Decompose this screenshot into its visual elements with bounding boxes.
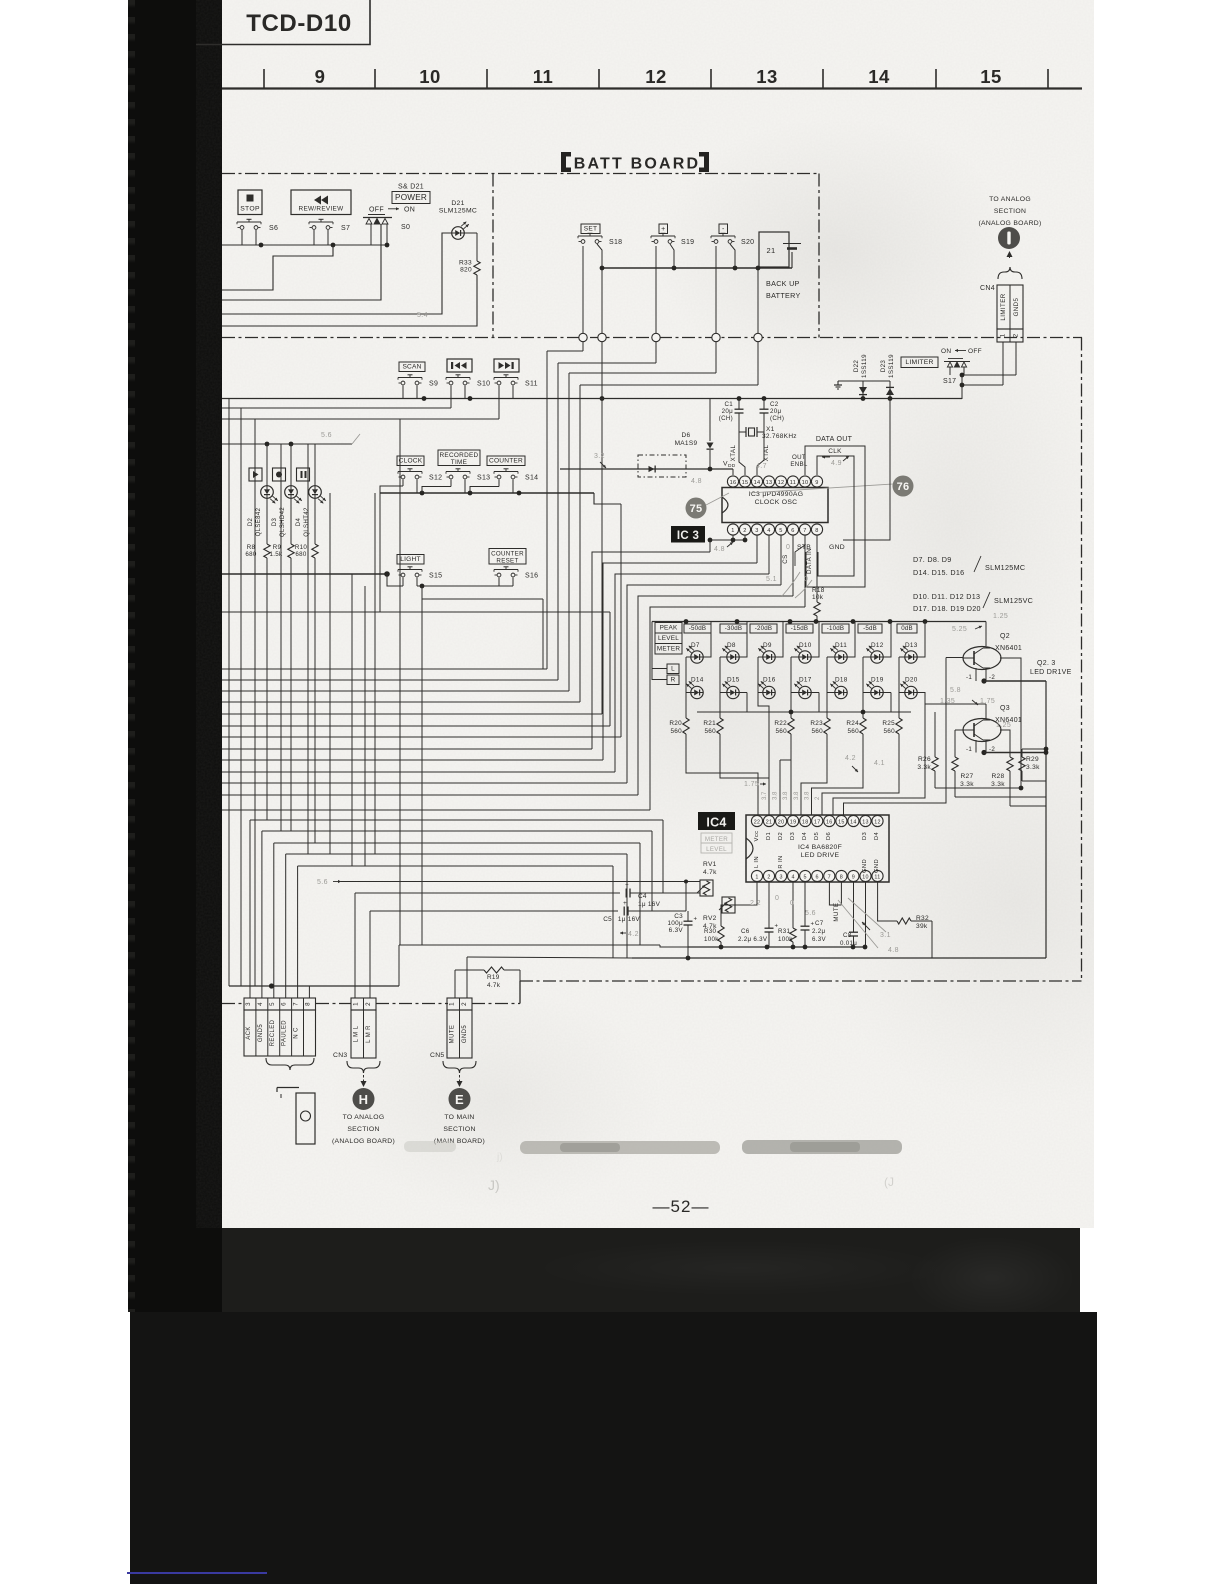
svg-text:C5: C5: [603, 916, 612, 923]
resistor R28 3.3k: [991, 730, 1013, 806]
svg-text:-5dB: -5dB: [863, 625, 877, 632]
border dash-dot vertical x=819: [818, 174, 820, 338]
svg-text:18: 18: [802, 820, 809, 826]
svg-text:COUNTER: COUNTER: [491, 551, 524, 558]
svg-text:5.4: 5.4: [417, 312, 428, 319]
svg-text:5.6: 5.6: [805, 910, 816, 917]
svg-text:32.768KHz: 32.768KHz: [762, 433, 797, 440]
svg-text:SCAN: SCAN: [402, 364, 421, 371]
svg-text:D4: D4: [802, 832, 808, 841]
svg-text:5: 5: [779, 528, 782, 534]
connector CN2 pins 3-8: [244, 998, 316, 1056]
labels PEAK LEVEL METER: [655, 623, 682, 655]
svg-text:1.25: 1.25: [993, 613, 1008, 620]
label TO ANALOG SECTION (top right): [978, 196, 1041, 227]
IC4 pin labels rotated: [754, 831, 880, 873]
svg-text:LED DR1VE: LED DR1VE: [1030, 669, 1072, 676]
brace above CN4: [998, 267, 1010, 279]
connector symbol H to analog: [353, 1088, 375, 1110]
svg-text:R30: R30: [704, 928, 717, 935]
svg-text:S15: S15: [429, 573, 442, 580]
svg-text:13: 13: [756, 66, 778, 87]
svg-text:3.8: 3.8: [783, 791, 789, 800]
svg-text:CLK: CLK: [828, 448, 842, 455]
resistor R23 560: [810, 718, 830, 735]
svg-text:SECTION: SECTION: [994, 208, 1026, 215]
resistor R33 820: [459, 260, 480, 276]
svg-text:3: 3: [245, 1002, 252, 1006]
svg-text:DATA OUT: DATA OUT: [816, 436, 853, 443]
resistor R26 3.3k: [917, 712, 938, 788]
svg-text:8: 8: [305, 1002, 312, 1006]
svg-text:D16: D16: [763, 677, 776, 684]
LED D11: [830, 642, 847, 663]
resistor R27 3.3k: [952, 730, 974, 797]
svg-text:LEVEL: LEVEL: [706, 846, 727, 853]
wire row2 crossover rail: [697, 710, 911, 715]
svg-text:SECTION: SECTION: [443, 1126, 475, 1133]
svg-text:ON: ON: [941, 348, 951, 355]
svg-text:5.1: 5.1: [766, 576, 777, 583]
switch S18: [578, 235, 602, 237]
svg-text:4.8: 4.8: [888, 947, 899, 954]
svg-text:1: 1: [731, 528, 734, 534]
brace under CN2: [266, 1058, 290, 1070]
LED D21 indicator: [439, 200, 477, 239]
capacitor C8 0.01u: [840, 882, 858, 947]
IC3 bottom pins 1-8: [727, 524, 822, 535]
wire resistor bottoms to IC4 bus: [686, 658, 963, 816]
LED D13: [900, 642, 917, 663]
IC4 BA6820F body: [746, 815, 889, 882]
backup battery Z1: [759, 232, 801, 300]
LED D8: [722, 642, 739, 663]
svg-text:1: 1: [353, 1002, 360, 1006]
svg-text:D5: D5: [814, 832, 820, 840]
capacitor C7 2.2u 6.3V: [801, 882, 827, 947]
svg-text:100k: 100k: [704, 936, 719, 943]
svg-text:560: 560: [811, 728, 823, 735]
switch S13: [446, 471, 470, 473]
svg-text:PAULED: PAULED: [282, 1020, 288, 1046]
svg-text:D12: D12: [871, 642, 884, 649]
svg-text:PEAK: PEAK: [660, 625, 678, 632]
IC4 top pins 22-12: [751, 815, 883, 826]
wire light row: [222, 571, 543, 599]
wire scan row2: [222, 407, 451, 409]
wire meter top rail: [652, 619, 986, 680]
svg-text:-50dB: -50dB: [689, 625, 707, 632]
svg-text:12: 12: [778, 480, 785, 486]
border dash-dot bottom right: [520, 980, 1082, 982]
svg-text:-1: -1: [966, 674, 972, 681]
border dash-dot bottom left segments: [222, 1003, 244, 1005]
svg-text:D3: D3: [790, 832, 796, 840]
border dash-dot right vertical: [1081, 338, 1083, 982]
diode D22 1SS119: [853, 354, 868, 399]
svg-text:S20: S20: [741, 239, 754, 246]
svg-text:S& D21: S& D21: [398, 184, 424, 191]
svg-text:D23: D23: [880, 360, 887, 373]
svg-text:L M L: L M L: [354, 1025, 360, 1042]
switch S10: [446, 377, 470, 379]
svg-text:X1: X1: [766, 426, 775, 433]
svg-text:15: 15: [742, 480, 749, 486]
svg-text:3.8: 3.8: [773, 791, 779, 800]
svg-text:CN5: CN5: [430, 1052, 445, 1059]
svg-text:11: 11: [790, 480, 796, 486]
svg-text:QLSE842: QLSE842: [256, 507, 262, 536]
svg-text:12: 12: [645, 66, 667, 87]
svg-text:D7. D8. D9: D7. D8. D9: [913, 555, 952, 564]
svg-text:D10: D10: [799, 642, 812, 649]
button icon rec: [273, 468, 286, 481]
svg-text:3.3k: 3.3k: [960, 781, 974, 788]
svg-text:OUT: OUT: [792, 454, 806, 461]
svg-text:Vcc: Vcc: [754, 831, 760, 842]
svg-text:IC3 μPD4990AG: IC3 μPD4990AG: [749, 491, 804, 498]
grid column numbers: [315, 66, 1002, 87]
svg-text:4.7k: 4.7k: [703, 869, 717, 876]
svg-text:CLOCK: CLOCK: [399, 458, 423, 465]
svg-text:D4: D4: [296, 518, 302, 527]
svg-text:4: 4: [767, 528, 770, 534]
svg-text:METER: METER: [657, 646, 681, 653]
svg-text:1.75: 1.75: [980, 698, 995, 705]
LED D4: [296, 486, 326, 537]
wire mid verticals: [281, 419, 543, 945]
IC3 top pins 16-9: [727, 476, 822, 487]
resistor R22 560: [774, 718, 794, 735]
svg-text:SECTION: SECTION: [347, 1126, 379, 1133]
svg-text:4.7k: 4.7k: [487, 982, 501, 989]
svg-text:LIMITER: LIMITER: [905, 359, 933, 366]
svg-text:1.25: 1.25: [996, 722, 1011, 729]
svg-text:6.3V: 6.3V: [669, 927, 684, 934]
svg-text:TO MAIN: TO MAIN: [444, 1114, 474, 1121]
title box TCD-D10: [196, 0, 370, 45]
resistor R9 1.5k: [270, 544, 295, 558]
wire IC4 bottom rail: [688, 882, 867, 949]
resistor R29 3.3k: [1019, 747, 1049, 781]
svg-text:R33: R33: [459, 260, 472, 267]
svg-text:C3: C3: [674, 913, 683, 920]
LED D2: [248, 486, 278, 537]
svg-text:4.1: 4.1: [874, 760, 885, 767]
svg-text:3.3k: 3.3k: [917, 764, 931, 771]
resistor R8 680: [245, 544, 270, 558]
wire meter LED column drops: [686, 622, 925, 693]
svg-text:E: E: [455, 1092, 464, 1107]
svg-text:0: 0: [786, 544, 790, 551]
svg-text:2: 2: [743, 528, 746, 534]
svg-text:560: 560: [883, 728, 895, 735]
svg-text:D20: D20: [905, 677, 918, 684]
svg-text:16: 16: [826, 820, 833, 826]
svg-text:LEVEL: LEVEL: [658, 635, 679, 642]
svg-text:15: 15: [838, 820, 845, 826]
svg-text:-30dB: -30dB: [725, 625, 743, 632]
svg-text:560: 560: [775, 728, 787, 735]
svg-text:560: 560: [847, 728, 859, 735]
svg-text:3.3k: 3.3k: [991, 781, 1005, 788]
ghost marks: [404, 1140, 902, 1193]
wire clock rail: [380, 480, 621, 613]
label IC3 black tag: [671, 526, 705, 543]
svg-text:CLOCK OSC: CLOCK OSC: [755, 499, 798, 506]
resistor R18 10k: [812, 535, 825, 622]
transistor Q3 XN6401: [963, 705, 1022, 742]
label COUNTER: [487, 456, 525, 466]
mounting bracket drawing: [277, 1088, 315, 1145]
svg-text:GND: GND: [829, 544, 845, 551]
svg-text:S19: S19: [681, 239, 694, 246]
svg-text:DATA IN: DATA IN: [806, 548, 813, 574]
svg-text:DD: DD: [728, 463, 736, 469]
switch S9: [398, 377, 422, 379]
wire feeder y=882: [317, 879, 700, 911]
svg-text:2.2μ 6.3V: 2.2μ 6.3V: [738, 936, 768, 943]
svg-text:BATTERY: BATTERY: [766, 291, 801, 300]
svg-text:-2: -2: [989, 674, 995, 681]
svg-text:1SS119: 1SS119: [888, 354, 895, 378]
label minus: [719, 224, 728, 234]
svg-text:-1: -1: [966, 746, 972, 753]
svg-text:9: 9: [315, 66, 326, 87]
svg-text:J): J): [488, 1177, 500, 1193]
wire S17 to CN4: [960, 342, 1016, 399]
border dash-dot mid horizontal: [222, 337, 1082, 339]
svg-text:D10. D11. D12 D13: D10. D11. D12 D13: [913, 592, 980, 601]
connector CN3: [333, 998, 376, 1059]
LED D14: [686, 677, 703, 699]
remote sensor dash box with diode: [638, 455, 686, 477]
svg-text:10k: 10k: [812, 594, 824, 601]
svg-text:4.9: 4.9: [831, 460, 842, 467]
wire IC3 bottom pins: [708, 469, 805, 596]
svg-text:12: 12: [874, 820, 881, 826]
svg-text:+: +: [811, 922, 815, 928]
wire Q bottom rails: [935, 786, 1046, 806]
svg-text:H: H: [359, 1092, 369, 1107]
paper sheet: [196, 0, 1094, 1228]
svg-text:0: 0: [790, 900, 794, 907]
svg-text:Q3: Q3: [1000, 705, 1010, 712]
switch S15: [398, 569, 422, 571]
wire right drop to meter: [843, 399, 890, 541]
svg-text:D6: D6: [826, 832, 832, 840]
svg-text:13: 13: [766, 480, 773, 486]
switch S12: [398, 471, 422, 473]
svg-text:STOP: STOP: [240, 206, 260, 213]
resistor R21 560: [703, 718, 723, 735]
svg-text:3: 3: [755, 528, 758, 534]
svg-text:R8: R8: [247, 544, 256, 551]
capacitor C2 20u: [760, 399, 785, 433]
left black scan strip: [128, 0, 222, 1312]
wire S18 right drop: [598, 268, 606, 714]
svg-text:METER: METER: [705, 836, 728, 843]
svg-text:C6: C6: [741, 928, 750, 935]
svg-text:S16: S16: [525, 573, 538, 580]
button icon next track: [494, 359, 519, 372]
IC4 bottom pins 1-11: [751, 870, 883, 881]
switch S14: [494, 471, 518, 473]
LED D12: [866, 642, 883, 663]
switch S16: [494, 569, 518, 571]
svg-text:COUNTER: COUNTER: [489, 458, 523, 465]
svg-text:IC4 BA6820F: IC4 BA6820F: [798, 844, 842, 851]
svg-text:4.7: 4.7: [756, 463, 767, 470]
svg-text:2: 2: [767, 875, 770, 881]
svg-text:C4: C4: [638, 893, 647, 900]
wire IC4 region bottom: [632, 947, 1046, 960]
svg-text:0: 0: [775, 895, 779, 902]
wire bundle group B horizontals: [250, 820, 663, 998]
svg-text:5: 5: [804, 875, 807, 881]
svg-text:1: 1: [1000, 333, 1007, 337]
svg-text:(CH): (CH): [719, 415, 733, 422]
svg-text:GND5: GND5: [462, 1025, 468, 1044]
svg-text:9: 9: [815, 480, 818, 486]
svg-text:C2: C2: [770, 401, 779, 408]
LED D15: [722, 677, 739, 699]
svg-text:RV1: RV1: [703, 861, 717, 868]
svg-text:L IN: L IN: [754, 856, 760, 868]
svg-text:-20dB: -20dB: [755, 625, 773, 632]
border dash-dot bottom step: [519, 981, 521, 1004]
L R channel boxes: [652, 664, 679, 685]
LED D18: [830, 677, 847, 699]
wire y=957 feeder: [467, 957, 632, 958]
svg-text:1: 1: [755, 875, 758, 881]
resistor R24 560: [846, 718, 866, 735]
button icon STOP: [238, 190, 262, 215]
border dash-dot vertical x=493: [492, 174, 494, 338]
svg-text:POWER: POWER: [395, 193, 427, 202]
wire VDD rail: [560, 461, 736, 476]
svg-text:3.2: 3.2: [594, 453, 605, 460]
svg-text:R27: R27: [961, 773, 974, 780]
svg-text:ACK: ACK: [246, 1026, 252, 1040]
svg-text:L: L: [671, 666, 675, 673]
svg-text:OFF: OFF: [369, 207, 384, 214]
potentiometer RV2 4.7k: [703, 897, 735, 930]
wire y=612 feeder: [222, 611, 610, 613]
svg-text:R18: R18: [812, 587, 825, 594]
IC3 uPD4990AG body: [722, 488, 828, 523]
wire y=945 feeder: [399, 945, 688, 947]
svg-text:D3: D3: [862, 832, 868, 840]
svg-text:3: 3: [779, 875, 782, 881]
svg-text:D7: D7: [691, 642, 700, 649]
svg-text:D17: D17: [799, 677, 812, 684]
LED D7: [686, 642, 703, 663]
label XTAL rotated x2: [730, 445, 770, 462]
svg-text:D1: D1: [766, 832, 772, 840]
svg-text:-10dB: -10dB: [827, 625, 845, 632]
connector symbol E to main: [449, 1088, 471, 1110]
wire transport row: [222, 230, 389, 247]
svg-text:D18: D18: [835, 677, 848, 684]
svg-text:S7: S7: [341, 225, 350, 232]
svg-text:CN4: CN4: [980, 285, 995, 292]
wire data out nest: [805, 446, 865, 587]
switch S20: [711, 235, 735, 237]
svg-text:D2: D2: [248, 518, 254, 527]
slide switch S0: [363, 215, 410, 246]
labels diode types SLM125MC SLM125VC: [913, 555, 1033, 613]
resistor R19 4.7k: [455, 967, 520, 989]
svg-text:D9: D9: [763, 642, 772, 649]
label COUNTER RESET: [489, 549, 526, 565]
label IC4 black tag: [698, 812, 735, 830]
svg-text:4: 4: [791, 875, 794, 881]
LED D10: [794, 642, 811, 663]
wire Q right loop: [1044, 681, 1049, 958]
svg-text:6: 6: [816, 875, 819, 881]
capacitor C6 2.2u 6.3V: [738, 882, 779, 947]
svg-text:R28: R28: [992, 773, 1005, 780]
svg-text:39k: 39k: [916, 923, 928, 930]
resistor R10 680: [295, 544, 318, 558]
wire left verticals from top blocks: [229, 399, 375, 987]
svg-text:+: +: [661, 226, 665, 233]
svg-text:2: 2: [1013, 333, 1020, 337]
svg-text:1μ 16V: 1μ 16V: [638, 901, 661, 908]
labels DATA OUT CLK OUT ENBL: [790, 436, 852, 468]
svg-text:TO ANALOG: TO ANALOG: [343, 1114, 385, 1121]
svg-text:8: 8: [815, 528, 818, 534]
svg-text:17: 17: [814, 820, 821, 826]
dB threshold labels: [684, 624, 917, 633]
svg-text:SET: SET: [584, 226, 597, 233]
label TO MAIN SECTION: [434, 1114, 485, 1145]
svg-text:Q2: Q2: [1000, 633, 1010, 640]
capacitor C1 20u: [719, 399, 744, 433]
svg-text:20: 20: [778, 820, 785, 826]
svg-text:1.75: 1.75: [744, 781, 759, 788]
svg-text:MA1S9: MA1S9: [675, 440, 698, 447]
svg-text:R25: R25: [882, 720, 895, 727]
button icon REW/REVIEW: [291, 190, 351, 215]
svg-text:GND: GND: [862, 859, 868, 873]
header BATT BOARD: [561, 152, 709, 173]
label Q2.3 LED DRIVE: [1030, 660, 1072, 676]
svg-text:8: 8: [840, 875, 843, 881]
svg-text:15: 15: [980, 66, 1002, 87]
svg-text:CS: CS: [782, 554, 789, 563]
svg-text:5.8: 5.8: [950, 687, 961, 694]
svg-text:(ANALOG BOARD): (ANALOG BOARD): [332, 1138, 395, 1145]
svg-text:10: 10: [419, 66, 441, 87]
label RECORDED TIME: [438, 450, 480, 466]
svg-text:7: 7: [803, 528, 806, 534]
svg-text:3.7: 3.7: [762, 791, 768, 800]
svg-text:R23: R23: [810, 720, 823, 727]
label CLOCK: [397, 456, 424, 466]
svg-text:6: 6: [791, 528, 794, 534]
resistor R20 560: [669, 718, 689, 735]
svg-text:4.2: 4.2: [628, 931, 639, 938]
wire set row rail: [597, 244, 792, 270]
svg-text:S10: S10: [477, 381, 490, 388]
svg-text:RECORDED: RECORDED: [440, 452, 479, 459]
wire led columns: [267, 444, 315, 843]
LED D19: [866, 677, 883, 699]
svg-text:3.3k: 3.3k: [1026, 764, 1040, 771]
svg-text:S12: S12: [429, 475, 442, 482]
